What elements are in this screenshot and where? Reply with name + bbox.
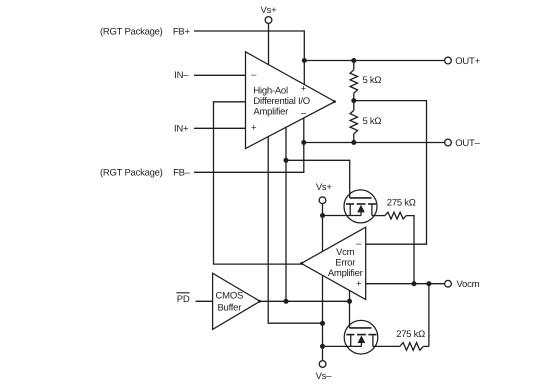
node OUT- terminal (445, 138, 481, 149)
node junction Vs+ middle / upper MOSFET (320, 213, 325, 218)
wire Vs+ middle terminal down to Vcm amp top edge (322, 203, 324, 251)
node junction buffer output / PD net (284, 299, 289, 304)
svg-text:(RGT Package): (RGT Package) (100, 167, 163, 178)
node junction lower MOSFET source / rail (320, 344, 325, 349)
node junction main amp Vs- / rail (320, 321, 325, 326)
wire PD net branch to upper MOSFET gate (286, 160, 350, 198)
node junction OUT- / 5k resistor (351, 140, 356, 145)
resistor 275 kOhm upper (372, 198, 416, 284)
svg-text:Vs+: Vs+ (316, 182, 333, 193)
op-amp Vcm error amplifier (301, 227, 366, 299)
node junction lower 275k / Vocm line (426, 281, 431, 286)
svg-text:5 kΩ: 5 kΩ (363, 75, 382, 86)
node Vcm amplifier apex join (300, 262, 303, 265)
transistor lower MOSFET switch (344, 290, 378, 354)
svg-text:+: + (251, 123, 257, 134)
node Vs+ (top supply terminal) (261, 5, 278, 23)
wire OUT+ output line (304, 60, 445, 62)
wire Vcm amp non-inverting input / Vocm line (366, 283, 445, 285)
svg-text:–: – (251, 69, 257, 80)
svg-text:CMOS: CMOS (216, 291, 244, 302)
buffer CMOS buffer (213, 273, 260, 329)
svg-text:High-Aol: High-Aol (253, 86, 288, 97)
node junction OUT- / FB- (301, 140, 306, 145)
wire IN+ lead (194, 127, 246, 129)
wire Vs+ top terminal to main amplifier top edge (268, 23, 270, 64)
svg-text:Differential I/O: Differential I/O (253, 96, 310, 107)
node FB- input label (100, 167, 191, 178)
wire OUT- output line (304, 142, 445, 144)
wire Vcm error amp output to main amp common-mode control (214, 102, 301, 264)
resistor 5 kOhm upper (OUT+ to midpoint) (350, 61, 381, 101)
node FB+ input label (100, 26, 190, 37)
op-amp High-Aol Differential I/O Amplifier (246, 52, 336, 149)
wire main amplifier Vs- return (268, 137, 322, 324)
svg-text:Buffer: Buffer (217, 303, 241, 314)
node junction OUT+ / FB+ (302, 58, 307, 63)
svg-text:+: + (301, 84, 307, 95)
node junction upper 275k / Vocm line (412, 281, 417, 286)
node Vs- supply rail below Vcm amp (322, 275, 324, 360)
node OUT+ terminal (445, 56, 481, 67)
wire lower 275k to Vocm node (428, 284, 430, 347)
svg-text:FB–: FB– (173, 167, 191, 178)
wire IN- lead (194, 74, 246, 76)
wire resistor midpoint to Vcm error amp inverting input (354, 101, 427, 245)
node Vs- terminal (316, 361, 333, 382)
transistor upper MOSFET switch (344, 190, 377, 223)
wire CMOS buffer output to MOSFET gates (260, 300, 350, 302)
wire PD lead (196, 300, 213, 302)
svg-text:–: – (301, 108, 307, 119)
svg-text:–: – (356, 239, 362, 250)
node CMOS buffer apex join (258, 300, 261, 303)
svg-text:(RGT Package): (RGT Package) (100, 26, 163, 37)
node Vocm terminal (445, 279, 480, 290)
svg-text:OUT+: OUT+ (455, 56, 480, 67)
wire Vs+ branch to upper MOSFET source (323, 215, 362, 217)
svg-text:Vs–: Vs– (316, 371, 333, 382)
svg-text:275 kΩ: 275 kΩ (396, 329, 425, 340)
svg-text:IN–: IN– (174, 70, 189, 81)
node PD input with overline (176, 293, 189, 305)
svg-text:+: + (356, 278, 362, 289)
wire power-down net: main amp shutdown / buffer output / MOSFET gates (285, 127, 287, 301)
svg-text:Vs+: Vs+ (261, 5, 278, 16)
svg-text:FB+: FB+ (173, 26, 191, 37)
svg-text:Error: Error (335, 258, 355, 269)
svg-text:IN+: IN+ (174, 123, 189, 134)
node junction OUT+ / 5k resistor (351, 58, 356, 63)
node junction 5k midpoint (351, 98, 356, 103)
wire main amp + output stub (303, 61, 305, 85)
svg-text:Vocm: Vocm (457, 279, 480, 290)
svg-text:Amplifier: Amplifier (253, 106, 288, 117)
wire FB- lead to OUT- node (194, 118, 304, 172)
wire FB+ lead to OUT+ node (194, 31, 304, 61)
wire Vs- branch to lower MOSFET source (323, 345, 362, 347)
svg-text:OUT–: OUT– (455, 138, 480, 149)
svg-text:275 kΩ: 275 kΩ (387, 198, 416, 209)
resistor 275 kOhm lower (373, 329, 429, 350)
svg-text:5 kΩ: 5 kΩ (363, 116, 382, 127)
node IN- input (174, 70, 189, 81)
resistor 5 kOhm lower (midpoint to OUT-) (350, 101, 381, 143)
node junction lower MOSFET gate (347, 299, 352, 304)
svg-text:PD: PD (177, 294, 190, 305)
node IN+ input (174, 123, 189, 134)
node Vs+ (middle supply terminal) (316, 182, 333, 203)
svg-text:Vcm: Vcm (336, 247, 355, 258)
node main amplifier apex join (333, 100, 336, 103)
node junction PD net / upper gate branch (284, 158, 289, 163)
